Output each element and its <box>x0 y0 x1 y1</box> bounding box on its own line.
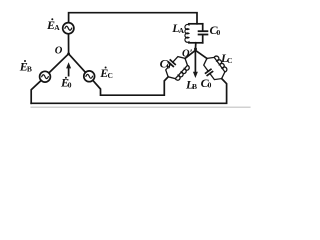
svg-text:C: C <box>227 56 232 65</box>
node O <box>67 52 70 55</box>
svg-text:A: A <box>179 26 185 35</box>
svg-text:0: 0 <box>208 81 212 90</box>
label LC <box>220 51 232 65</box>
svg-text:0: 0 <box>217 28 221 37</box>
wire top from source A to phase-A load branch <box>69 13 197 24</box>
node O' <box>194 48 197 51</box>
wire node O to source B <box>49 54 69 73</box>
label C0 of phase-B loop <box>160 57 171 71</box>
svg-text:C: C <box>108 71 113 80</box>
wire node O to source C <box>69 54 86 73</box>
label C0 of phase-A loop <box>210 23 221 37</box>
source EB <box>40 71 51 82</box>
label E0 <box>60 76 72 90</box>
label EA <box>46 18 60 32</box>
source EA <box>63 23 74 34</box>
svg-text:A: A <box>54 23 60 32</box>
svg-text:0: 0 <box>68 80 72 89</box>
label EB <box>19 60 32 74</box>
svg-text:O: O <box>55 46 63 57</box>
label LA <box>171 21 184 35</box>
label LB <box>185 77 197 91</box>
svg-text:0: 0 <box>167 61 171 70</box>
wire source B to bottom rail <box>31 81 41 104</box>
source EC <box>84 71 95 82</box>
wire bottom rail <box>31 79 226 104</box>
svg-text:B: B <box>192 82 197 91</box>
wire source A to node O <box>68 34 70 54</box>
wire source C to branch B load <box>93 77 168 95</box>
phase-B load loop: capacitor C0 parallel inductor LB <box>161 52 193 84</box>
arrow E0 pointing up to node O <box>68 67 70 75</box>
svg-text:B: B <box>27 65 32 74</box>
svg-text:O′: O′ <box>182 48 193 59</box>
wire O' to branch C load <box>195 50 207 58</box>
phase-C load loop: inductor LC parallel capacitor C0 <box>199 52 230 84</box>
label EC <box>99 66 113 80</box>
arrow pointing down from O' <box>194 51 196 73</box>
phase-A load loop: inductor LA parallel capacitor C0 <box>185 24 207 49</box>
label C0 of phase-C loop <box>201 76 212 90</box>
wire O' to branch B load <box>185 50 195 58</box>
